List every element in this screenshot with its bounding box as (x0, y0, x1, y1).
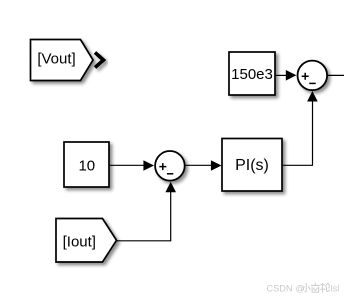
svg-text:150e3: 150e3 (231, 66, 273, 83)
svg-text:CSDN @: CSDN @ (266, 284, 304, 294)
svg-text:lsl: lsl (331, 284, 340, 294)
svg-text:10: 10 (78, 158, 95, 175)
svg-text:[Vout]: [Vout] (37, 51, 75, 68)
svg-text:PI(s): PI(s) (235, 157, 269, 174)
svg-text:[Iout]: [Iout] (63, 234, 96, 251)
